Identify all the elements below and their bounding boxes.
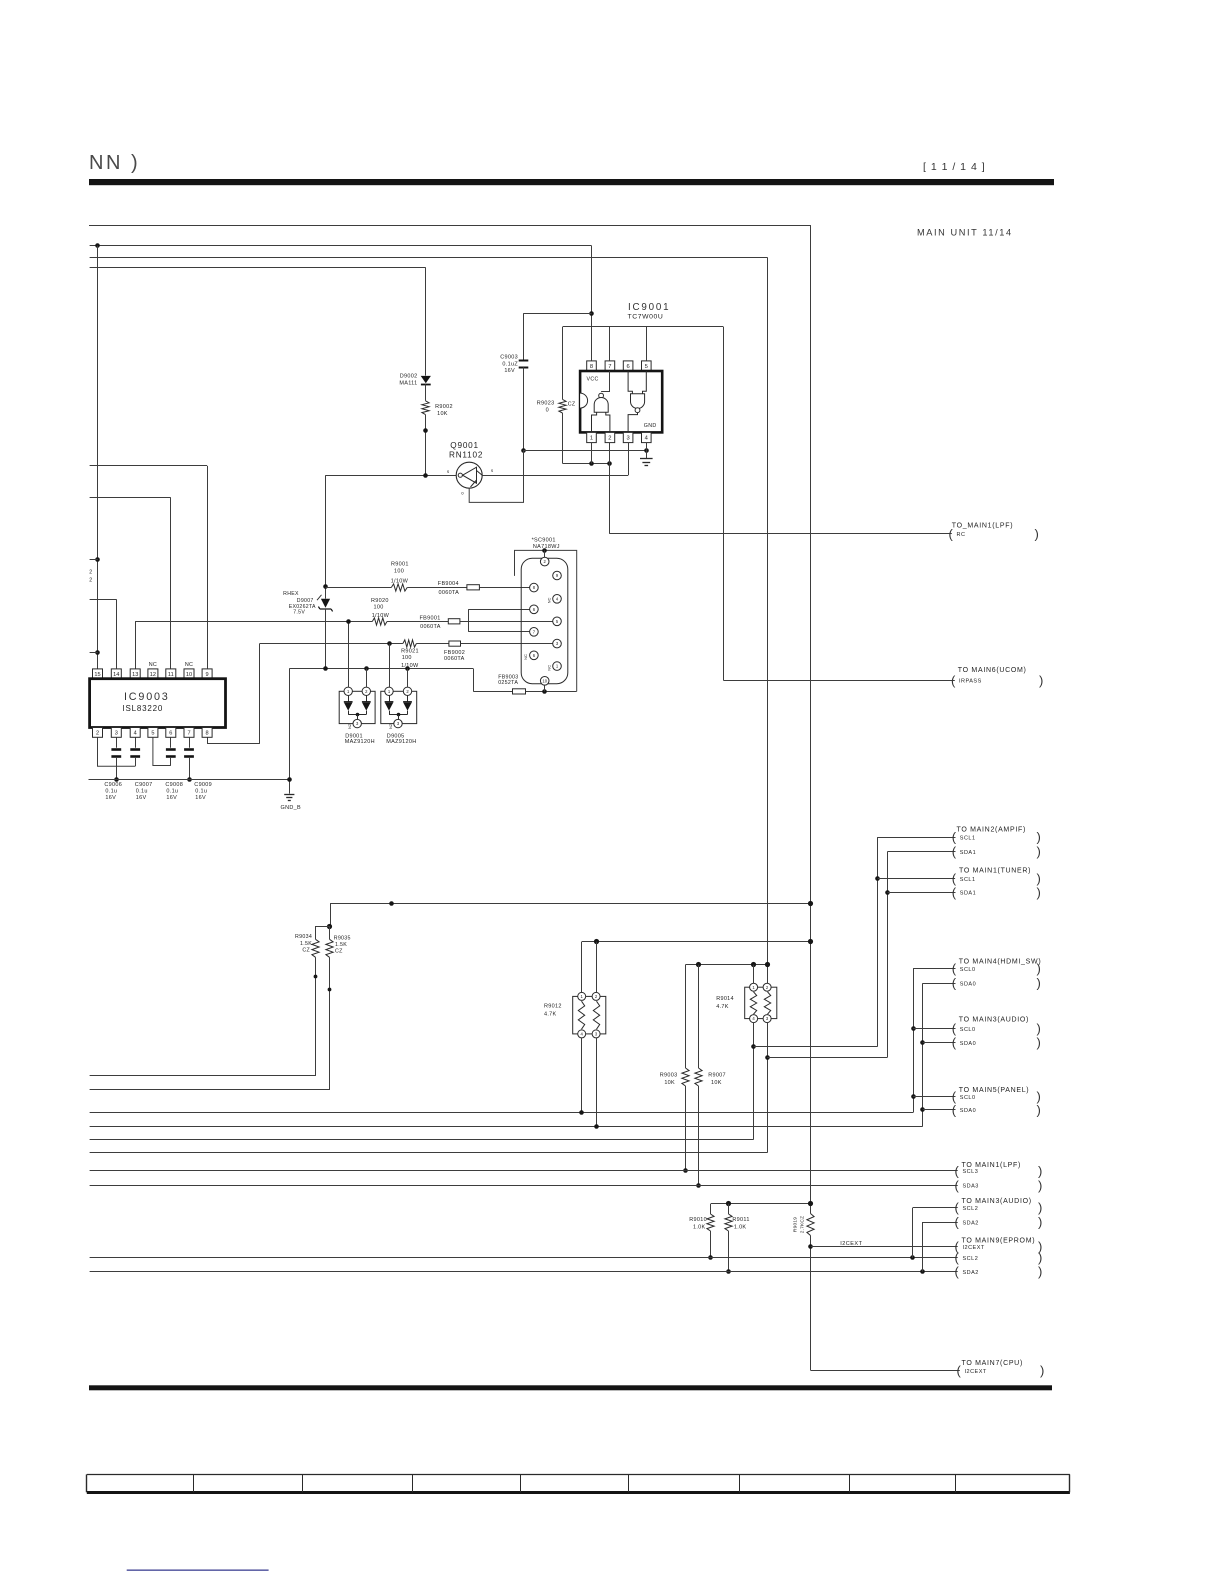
svg-text:): )	[1038, 1163, 1042, 1178]
svg-text:R9001: R9001	[391, 562, 409, 568]
svg-text:TO MAIN3(AUDIO): TO MAIN3(AUDIO)	[959, 1017, 1029, 1024]
svg-text:5: 5	[645, 364, 648, 370]
svg-text:GND: GND	[644, 423, 657, 429]
svg-text:TO MAIN9(EPROM): TO MAIN9(EPROM)	[962, 1237, 1036, 1244]
svg-text:SCL0: SCL0	[960, 1095, 976, 1101]
svg-text:SDA0: SDA0	[960, 1041, 976, 1047]
svg-text:SCL2: SCL2	[963, 1206, 979, 1212]
svg-text:MAZ9120H: MAZ9120H	[345, 739, 375, 745]
svg-text:2: 2	[96, 731, 99, 737]
svg-text:R9034: R9034	[295, 934, 312, 940]
svg-text:0252TA: 0252TA	[498, 680, 518, 686]
svg-text:10K: 10K	[664, 1080, 675, 1086]
svg-text:I2CEXT: I2CEXT	[840, 1241, 862, 1247]
svg-text:): )	[1037, 844, 1041, 859]
svg-text:TO MAIN4(HDMI_SW): TO MAIN4(HDMI_SW)	[959, 959, 1042, 966]
svg-text:8: 8	[206, 731, 209, 737]
svg-text:6: 6	[626, 364, 629, 370]
svg-text:): )	[1037, 961, 1041, 976]
svg-text:): )	[1037, 1035, 1041, 1050]
svg-text:8: 8	[590, 364, 593, 370]
svg-text:MAIN UNIT 11/14: MAIN UNIT 11/14	[917, 228, 1013, 238]
svg-text:): )	[1038, 1250, 1042, 1265]
svg-text:10K: 10K	[437, 411, 448, 417]
svg-text:(: (	[952, 830, 957, 845]
svg-text:1/10W: 1/10W	[401, 663, 419, 669]
svg-text:NN ): NN )	[89, 152, 140, 174]
svg-text:(: (	[955, 1264, 960, 1279]
svg-text:1/10W: 1/10W	[391, 578, 409, 584]
svg-text:SDA0: SDA0	[960, 982, 976, 988]
svg-text:0060TA: 0060TA	[444, 656, 465, 662]
svg-text:NZ: NZ	[348, 723, 352, 729]
svg-text:SDA2: SDA2	[963, 1221, 979, 1227]
svg-text:(: (	[951, 673, 956, 688]
svg-text:R9020: R9020	[371, 598, 389, 604]
svg-text:15: 15	[94, 672, 100, 678]
svg-text:R9014: R9014	[716, 996, 734, 1002]
svg-text:TO MAIN2(AMPIF): TO MAIN2(AMPIF)	[957, 827, 1026, 834]
svg-text:[ 1 1 / 1 4 ]: [ 1 1 / 1 4 ]	[923, 161, 986, 173]
svg-text:TC7W00U: TC7W00U	[628, 314, 664, 321]
svg-text:7: 7	[608, 364, 611, 370]
svg-text:R9023: R9023	[537, 400, 555, 406]
svg-text:SDA1: SDA1	[960, 891, 976, 897]
svg-text:NC: NC	[523, 654, 528, 660]
svg-text:I2CEXT: I2CEXT	[963, 1245, 985, 1251]
svg-text:NC: NC	[546, 598, 551, 604]
svg-text:4.7K: 4.7K	[716, 1004, 729, 1010]
svg-text:): )	[1038, 1264, 1042, 1279]
svg-text:SCL0: SCL0	[960, 1027, 976, 1033]
svg-text:C9003: C9003	[500, 355, 518, 361]
svg-text:1.0K: 1.0K	[693, 1224, 706, 1230]
svg-text:SCL1: SCL1	[960, 877, 976, 883]
svg-text:NC: NC	[185, 662, 193, 668]
svg-text:9: 9	[206, 672, 209, 678]
svg-text:C9006: C9006	[104, 782, 122, 788]
svg-text:11: 11	[168, 672, 174, 678]
svg-text:(: (	[955, 1250, 960, 1265]
svg-text:R9007: R9007	[708, 1073, 726, 1079]
svg-text:(: (	[955, 1215, 960, 1230]
svg-text:16V: 16V	[504, 368, 515, 374]
svg-text:NC: NC	[546, 665, 551, 671]
svg-text:(: (	[949, 526, 954, 541]
svg-text:SDA3: SDA3	[963, 1184, 979, 1190]
svg-text:1: 1	[590, 436, 593, 442]
svg-text:R9021: R9021	[401, 649, 419, 655]
svg-text:TO MAIN6(UCOM): TO MAIN6(UCOM)	[958, 667, 1027, 674]
svg-text:SDA2: SDA2	[963, 1270, 979, 1276]
svg-text:s: s	[491, 468, 493, 473]
svg-text:TO MAIN1(TUNER): TO MAIN1(TUNER)	[959, 868, 1031, 875]
svg-text:10: 10	[186, 672, 192, 678]
svg-text:(: (	[952, 1021, 957, 1036]
svg-text:7.5V: 7.5V	[293, 610, 305, 616]
svg-text:2: 2	[89, 578, 92, 584]
svg-text:TO MAIN3(AUDIO): TO MAIN3(AUDIO)	[962, 1198, 1032, 1205]
svg-text:IRPASS: IRPASS	[959, 679, 982, 685]
svg-text:(: (	[955, 1200, 960, 1215]
svg-text:FB9001: FB9001	[420, 616, 441, 622]
svg-text:(: (	[952, 1035, 957, 1050]
svg-text:(: (	[952, 885, 957, 900]
svg-text:CZ: CZ	[568, 401, 576, 407]
svg-text:12: 12	[150, 672, 156, 678]
svg-text:): )	[1037, 885, 1041, 900]
svg-text:14: 14	[113, 672, 119, 678]
svg-text:C9009: C9009	[194, 782, 212, 788]
svg-text:0.1u: 0.1u	[166, 789, 178, 795]
svg-text:): )	[1039, 673, 1043, 688]
svg-text:1/10W: 1/10W	[372, 613, 390, 619]
svg-text:): )	[1037, 1021, 1041, 1036]
svg-text:(: (	[952, 976, 957, 991]
svg-text:(: (	[952, 871, 957, 886]
svg-text:*SC9001: *SC9001	[532, 538, 556, 544]
svg-text:3: 3	[626, 436, 629, 442]
svg-text:Q9001: Q9001	[450, 441, 479, 450]
svg-text:R9019: R9019	[793, 1217, 799, 1232]
svg-text:I2CEXT: I2CEXT	[965, 1369, 987, 1375]
svg-text:6: 6	[169, 731, 172, 737]
svg-text:(: (	[952, 961, 957, 976]
svg-text:R9002: R9002	[435, 404, 453, 410]
svg-text:13: 13	[132, 672, 138, 678]
svg-text:2: 2	[608, 436, 611, 442]
svg-text:R9035: R9035	[334, 936, 351, 942]
svg-text:3: 3	[115, 731, 118, 737]
svg-text:): )	[1038, 1200, 1042, 1215]
svg-text:IC9003: IC9003	[124, 691, 170, 703]
svg-text:CZ: CZ	[335, 949, 343, 955]
svg-text:CZ: CZ	[302, 947, 310, 953]
svg-text:2: 2	[89, 570, 92, 576]
svg-text:100: 100	[374, 604, 384, 610]
svg-text:R9010: R9010	[689, 1217, 707, 1223]
svg-text:NZ: NZ	[389, 723, 393, 729]
svg-text:NA718WJ: NA718WJ	[533, 544, 560, 550]
svg-text:R9012: R9012	[544, 1004, 562, 1010]
svg-text:ISL83220: ISL83220	[123, 704, 164, 713]
svg-text:): )	[1037, 976, 1041, 991]
svg-text:R9003: R9003	[660, 1073, 678, 1079]
svg-text:0.1uZ: 0.1uZ	[502, 361, 518, 367]
svg-text:): )	[1037, 1102, 1041, 1117]
svg-text:R9011: R9011	[732, 1217, 749, 1223]
svg-text:SDA0: SDA0	[960, 1108, 976, 1114]
svg-text:16V: 16V	[166, 795, 177, 801]
svg-text:VCC: VCC	[587, 376, 599, 382]
svg-text:): )	[1037, 871, 1041, 886]
svg-text:NC: NC	[149, 662, 157, 668]
svg-text:IC9001: IC9001	[628, 302, 670, 313]
svg-text:(: (	[957, 1363, 962, 1378]
svg-text:SCL0: SCL0	[960, 967, 976, 973]
svg-text:TO_MAIN1(LPF): TO_MAIN1(LPF)	[952, 522, 1013, 529]
svg-text:1.5K: 1.5K	[335, 942, 347, 948]
svg-text:RC: RC	[957, 532, 966, 538]
svg-text:7: 7	[187, 731, 190, 737]
svg-text:0: 0	[546, 407, 549, 413]
svg-text:GND_B: GND_B	[281, 805, 301, 811]
svg-text:C9007: C9007	[135, 782, 153, 788]
svg-text:C9008: C9008	[165, 782, 183, 788]
svg-text:): )	[1040, 1363, 1044, 1378]
svg-text:TO MAIN1(LPF): TO MAIN1(LPF)	[962, 1162, 1022, 1169]
svg-text:1.0K: 1.0K	[734, 1224, 747, 1230]
svg-text:s: s	[447, 469, 449, 474]
svg-text:SCL2: SCL2	[963, 1256, 979, 1262]
svg-text:10K: 10K	[711, 1080, 722, 1086]
svg-text:SDA1: SDA1	[960, 850, 976, 856]
svg-text:RHEX: RHEX	[283, 591, 299, 597]
svg-text:MA111: MA111	[399, 381, 417, 387]
svg-text:): )	[1038, 1178, 1042, 1193]
svg-text:10: 10	[542, 678, 547, 683]
svg-text:0.1u: 0.1u	[105, 789, 117, 795]
svg-text:TO MAIN7(CPU): TO MAIN7(CPU)	[962, 1360, 1023, 1367]
svg-text:4.7K: 4.7K	[544, 1012, 557, 1018]
svg-text:1.5K: 1.5K	[300, 941, 312, 947]
svg-text:0060TA: 0060TA	[420, 624, 441, 630]
svg-text:4: 4	[134, 731, 137, 737]
svg-text:): )	[1037, 830, 1041, 845]
svg-text:TO MAIN5(PANEL): TO MAIN5(PANEL)	[959, 1087, 1030, 1094]
svg-text:100: 100	[402, 655, 412, 661]
svg-text:0.1u: 0.1u	[195, 789, 207, 795]
svg-text:(: (	[952, 1102, 957, 1117]
svg-text:100: 100	[394, 568, 404, 574]
svg-text:(: (	[955, 1178, 960, 1193]
svg-text:0060TA: 0060TA	[439, 590, 460, 596]
svg-text:5: 5	[151, 731, 154, 737]
svg-text:D9002: D9002	[400, 374, 418, 380]
svg-text:(: (	[955, 1163, 960, 1178]
svg-text:0.1u: 0.1u	[136, 789, 148, 795]
svg-text:(: (	[952, 844, 957, 859]
svg-text:16V: 16V	[195, 795, 206, 801]
svg-text:RN1102: RN1102	[449, 451, 483, 460]
svg-text:16V: 16V	[105, 795, 116, 801]
svg-text:SCL3: SCL3	[963, 1169, 979, 1175]
svg-text:): )	[1038, 1215, 1042, 1230]
svg-text:2.7KCZ: 2.7KCZ	[800, 1216, 806, 1233]
svg-text:SCL1: SCL1	[960, 835, 976, 841]
svg-text:MAZ9120H: MAZ9120H	[386, 739, 416, 745]
svg-text:): )	[1035, 526, 1039, 541]
svg-text:FB9004: FB9004	[438, 581, 459, 587]
svg-text:16V: 16V	[136, 795, 147, 801]
